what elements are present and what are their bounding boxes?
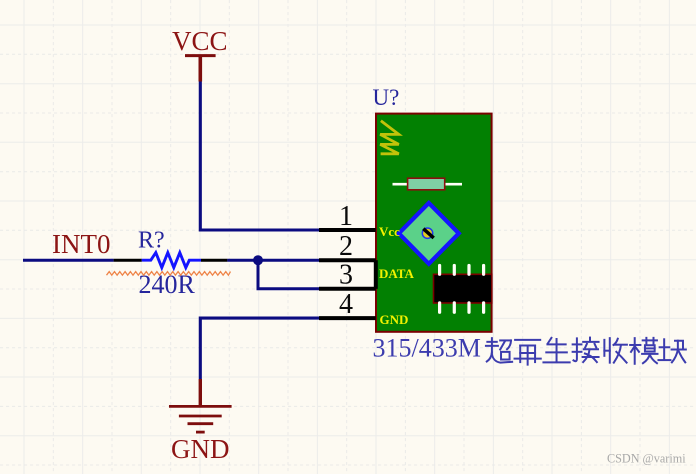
svg-text:CSDN @varimi: CSDN @varimi [607,452,686,466]
wire junction to pin 3 [258,260,319,289]
pin 4 [319,316,376,320]
svg-text:DATA: DATA [379,266,415,281]
svg-text:3: 3 [339,260,353,291]
module U? body [376,114,492,332]
pin 3 [319,287,376,291]
wire INT0 to resistor [23,259,114,262]
svg-text:GND: GND [380,312,409,327]
wire resistor to pin 2 [227,259,319,262]
error squiggle under resistor [107,272,231,276]
resistor R? leads [114,259,228,262]
svg-text:Vcc: Vcc [379,224,400,239]
svg-text:U?: U? [373,85,400,110]
antenna zigzag [380,121,399,154]
pin 1 [319,228,376,232]
power port VCC [172,26,228,82]
svg-text:4: 4 [339,289,353,320]
svg-text:315/433M: 315/433M [373,334,481,363]
trimmer screw [422,228,433,238]
svg-text:R?: R? [138,228,165,254]
wire GND to pin 4 [200,318,319,379]
resistor R? body zigzag [142,253,201,268]
inductor component [393,178,463,190]
junction dot [253,255,263,265]
svg-text:2: 2 [339,231,353,262]
ground symbol [169,379,232,432]
svg-text:1: 1 [339,201,353,232]
pin 2 [319,258,376,262]
svg-text:VCC: VCC [172,26,228,56]
wire VCC to pin 1 [200,82,319,231]
svg-text:GND: GND [171,434,230,464]
caption Chinese: 超再生接收模块 [486,338,512,363]
pins 2-3 connecting bar [374,260,378,289]
svg-text:INT0: INT0 [52,229,110,259]
IC chip [434,266,492,313]
trimmer diamond [399,203,459,264]
